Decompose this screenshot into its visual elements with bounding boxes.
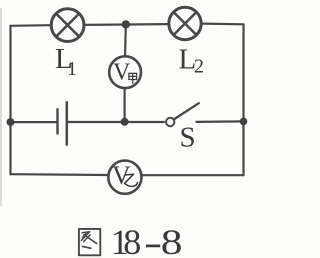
wire middle-right segment (switch to right node): [196, 120, 243, 123]
wire middle segment (battery to switch): [68, 121, 164, 123]
node left junction: [7, 118, 15, 126]
wire top-middle segment: [85, 23, 168, 26]
voltmeter V乙 (U2): [108, 161, 141, 194]
svg-text:S: S: [180, 121, 196, 153]
wire top-left segment: [11, 24, 51, 27]
voltmeter V甲 (U1): [109, 56, 141, 88]
lamp L2: [169, 7, 201, 39]
wire bottom-left segment: [11, 173, 108, 176]
wire bottom-right segment: [143, 174, 244, 176]
svg-text:V: V: [113, 60, 131, 86]
caption 图 18-8: [79, 222, 183, 258]
caption dash: [146, 245, 160, 248]
lamp L1: [51, 9, 84, 42]
switch S: [166, 103, 200, 127]
wire voltmeter V甲 stem lower: [123, 89, 125, 122]
wire middle-left segment (node to battery): [11, 121, 57, 123]
node middle junction (below V甲): [121, 118, 129, 126]
node right junction: [240, 118, 248, 126]
wire right vertical: [242, 24, 244, 175]
svg-text:8: 8: [161, 222, 183, 258]
scan artifact left edge streak: [0, 8, 2, 206]
svg-text:1: 1: [67, 58, 77, 80]
svg-text:8: 8: [123, 222, 141, 258]
wire left vertical: [9, 26, 11, 174]
node top junction: [122, 20, 130, 28]
wire voltmeter V甲 stem upper: [124, 24, 127, 55]
wire top-right segment: [202, 23, 243, 26]
battery cell B1: [58, 102, 67, 144]
svg-text:2: 2: [194, 56, 204, 78]
